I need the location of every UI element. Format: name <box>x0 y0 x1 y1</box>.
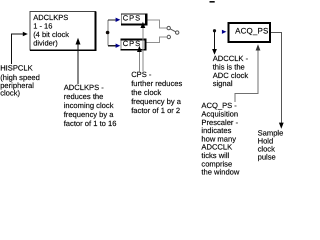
svg-text:CPS: CPS <box>123 14 141 23</box>
svg-text:factor of 1 to 16: factor of 1 to 16 <box>64 119 117 128</box>
svg-text:frequency by a: frequency by a <box>64 110 115 119</box>
junction dot <box>106 31 110 35</box>
svg-text:reduces the: reduces the <box>64 92 104 101</box>
ADCLKPS caption text <box>64 83 117 128</box>
svg-text:signal: signal <box>213 79 233 88</box>
svg-text:clock): clock) <box>0 89 20 98</box>
CPS caption callout arrow into CPS 2 <box>137 46 142 72</box>
prescaler block CPS 1 <box>121 14 147 26</box>
blue arrowhead into ACQ_PS <box>222 30 227 34</box>
ADCCLK callout line <box>214 31 216 52</box>
HISPCLK callout wire <box>11 34 24 64</box>
svg-text:HISPCLK: HISPCLK <box>0 64 33 73</box>
svg-text:frequency by a: frequency by a <box>131 97 182 106</box>
switch common terminal <box>176 31 179 34</box>
blue arrowhead into CPS 2 <box>116 44 121 48</box>
svg-text:the window: the window <box>201 168 240 177</box>
acquisition prescaler block ACQ_PS <box>229 23 271 42</box>
svg-text:ACQ_PS: ACQ_PS <box>235 27 268 36</box>
svg-text:divider): divider) <box>33 38 58 47</box>
wire CPS 1 to switch throw 1 <box>147 20 167 28</box>
ACQ_PS caption text <box>201 101 240 176</box>
sample hold output wire <box>271 32 281 125</box>
switch throw 1 terminal <box>167 26 170 29</box>
ADCCLK label <box>213 54 249 88</box>
CPS caption callout arrow into CPS 1 <box>141 22 146 72</box>
ACQ_PS caption up arrowhead <box>256 44 261 50</box>
svg-text:CPS: CPS <box>123 39 141 48</box>
blue arrowhead into CPS 1 <box>116 18 121 22</box>
svg-text:incoming clock: incoming clock <box>64 101 114 110</box>
svg-text:ADCLKPS -: ADCLKPS - <box>64 83 105 92</box>
sample hold down arrowhead <box>279 123 284 129</box>
svg-text:CPS -: CPS - <box>131 70 152 79</box>
sample hold label <box>258 129 284 162</box>
wire to CPS 2 <box>108 45 117 47</box>
svg-text:pulse: pulse <box>258 152 276 161</box>
HISPCLK label <box>0 64 40 98</box>
svg-text:further reduces: further reduces <box>131 79 182 88</box>
svg-text:factor of 1 or 2: factor of 1 or 2 <box>131 106 180 115</box>
wire to CPS 1 <box>108 19 117 21</box>
CPS caption text <box>131 70 182 115</box>
ADCLKPS caption callout arrow <box>76 38 81 84</box>
ACQ_PS caption callout elbow <box>235 48 258 103</box>
wire CPS 2 to switch throw 2 <box>147 37 167 43</box>
ADCCLK callout down arrowhead <box>212 49 217 55</box>
switch blade <box>170 29 175 32</box>
top dash mark <box>210 1 215 3</box>
prescaler block CPS 2 <box>120 39 146 51</box>
HISPCLK arrowhead <box>23 32 28 37</box>
switch throw 2 terminal <box>167 35 170 38</box>
splitter wire vertical <box>107 20 109 46</box>
ADCLKPS box title text <box>33 13 69 47</box>
divider block ADCLKPS <box>30 12 97 51</box>
svg-text:the clock: the clock <box>131 88 161 97</box>
ADCCLK callout dot <box>213 29 216 32</box>
